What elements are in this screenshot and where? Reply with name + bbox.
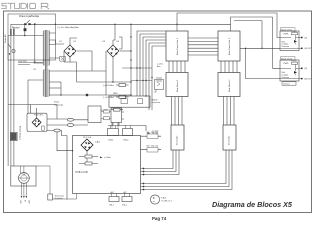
wire [31, 23, 56, 25]
wire [8, 105, 57, 120]
svg-text:T-COM 2.1.2: T-COM 2.1.2 [161, 201, 172, 203]
thermal breaker [60, 56, 65, 61]
svg-text:PD 2 D.A.: PD 2 D.A. [83, 136, 92, 139]
bridge wiring [49, 24, 230, 97]
svg-text:Pag 74: Pag 74 [152, 216, 167, 221]
AC input left column [8, 24, 15, 166]
fuse F1 [24, 28, 27, 31]
svg-text:Diagrama de Blocos X5: Diagrama de Blocos X5 [212, 200, 293, 209]
wire [7, 36, 9, 167]
caps [104, 110, 110, 113]
thermostat [48, 194, 53, 200]
logo letter U [15, 3, 20, 8]
wires in [31, 105, 37, 119]
svg-text:Fusível: Fusível [292, 31, 298, 33]
wire [49, 33, 64, 44]
wire [137, 31, 166, 96]
logo letter S [2, 3, 7, 8]
ovals [67, 118, 73, 121]
logo letter I [26, 3, 28, 8]
svg-text:P. Aux: P. Aux [161, 197, 166, 200]
svg-text:Ventilador: Ventilador [55, 197, 64, 200]
svg-text:PCB 2.0.06: PCB 2.0.06 [76, 171, 89, 174]
fonte aux box [88, 106, 146, 131]
svg-text:(B) OUT: (B) OUT [305, 78, 313, 80]
bridge1 top to bus [70, 38, 77, 45]
wire [24, 31, 26, 35]
bridge rectifier B1 [64, 45, 76, 57]
svg-text:Chave Liga/Desliga: Chave Liga/Desliga [19, 16, 40, 18]
bridge1 right [49, 51, 106, 71]
Back end 2 [280, 57, 299, 81]
bridge rectifier B2 [107, 45, 119, 57]
svg-text:Protection: Protection [282, 45, 290, 48]
logo letter D [21, 3, 27, 8]
wire [57, 132, 73, 151]
Main Driver 1 [166, 73, 188, 97]
bridge2 left [105, 51, 107, 95]
svg-text:Ponte Ret.: Ponte Ret. [34, 113, 44, 116]
wire [140, 34, 166, 96]
connector marks [8, 44, 11, 48]
svg-text:CN3-1: CN3-1 [108, 140, 113, 142]
wire [11, 23, 24, 25]
svg-text:Main Driver 2: Main Driver 2 [228, 79, 231, 92]
wire [149, 43, 166, 110]
wire [24, 25, 26, 28]
power entry box [8, 14, 56, 60]
Dissipador 2 [223, 125, 236, 150]
wire [146, 40, 166, 96]
bridge rectifier B4 [81, 139, 93, 151]
svg-text:Aux: Aux [157, 65, 160, 68]
svg-text:(+) 15V Aux: (+) 15V Aux [103, 84, 115, 87]
logo letter R [41, 3, 49, 8]
Dissipador 1 [171, 125, 184, 150]
logo letter O [30, 3, 36, 8]
Back end 1 [280, 28, 299, 51]
svg-text:D.Aux: D.Aux [95, 141, 100, 144]
svg-text:(+) Vcc Main Amplifier: (+) Vcc Main Amplifier [58, 26, 80, 29]
bus right of unit2 [240, 47, 280, 49]
wire [49, 81, 61, 83]
wire [60, 82, 62, 95]
svg-text:GND: GND [113, 93, 118, 95]
wire [34, 25, 36, 63]
svg-text:Supervisor: Supervisor [152, 102, 161, 104]
bridge rectifier B3 box [27, 105, 88, 200]
fan M1 [19, 173, 30, 184]
smps outline [28, 80, 43, 114]
node [176, 24, 177, 25]
node [24, 35, 25, 36]
fan box [11, 166, 36, 186]
VU/Clip leds row1 [141, 134, 162, 152]
Main Power Unit 2 [218, 31, 240, 61]
svg-text:CN3-2: CN3-2 [123, 140, 128, 142]
svg-text:Thermal: Thermal [283, 83, 290, 86]
bridge1 bottom [64, 51, 131, 82]
wire [143, 37, 166, 96]
Main Driver 2 [218, 73, 240, 97]
primary winding ticks [43, 31, 49, 96]
rail drop to bridge2 [113, 24, 115, 45]
svg-text:CN1-1: CN1-1 [109, 204, 114, 206]
node [112, 81, 113, 82]
svg-text:(R): (R) [305, 68, 308, 70]
top rails [176, 13, 280, 38]
transformer secondary wires to bridges [8, 33, 64, 119]
pcb internals [79, 151, 103, 165]
fuse F3 [119, 96, 126, 99]
top connectors CN [108, 126, 133, 136]
wire [49, 94, 61, 96]
svg-text:Protection: Protection [282, 76, 290, 79]
svg-text:110V 220V: 110V 220V [18, 61, 28, 63]
node [60, 94, 61, 95]
svg-text:Main Power Unit 1: Main Power Unit 1 [176, 37, 179, 55]
gnd line [61, 94, 131, 96]
wire [122, 112, 125, 119]
selector wires [18, 63, 43, 65]
svg-text:Rede AC: Rede AC [4, 34, 7, 43]
line fuses [10, 30, 11, 35]
bottom connectors [109, 194, 132, 202]
unit to driver pins [169, 61, 237, 73]
wire to pcb top conns [108, 123, 146, 132]
wire [10, 24, 12, 166]
logo letter T [8, 3, 13, 8]
fuse F2 [119, 84, 126, 87]
supervisor module box [109, 95, 150, 107]
wires [47, 119, 88, 200]
arrows at pcb edge [143, 168, 145, 170]
x131 vertical [130, 24, 132, 95]
svg-text:(+) Vaux: (+) Vaux [104, 157, 111, 159]
wire [13, 27, 15, 166]
bridge2 right to x131 [120, 50, 131, 52]
wire [49, 87, 61, 89]
svg-text:Main Driver 1: Main Driver 1 [176, 79, 179, 92]
svg-text:Dissipador: Dissipador [177, 135, 179, 145]
rail [177, 13, 280, 38]
svg-text:Fonte: Fonte [54, 101, 60, 104]
aux regulators [111, 67, 164, 111]
node [34, 23, 36, 25]
svg-text:T-COM: T-COM [152, 133, 158, 135]
vertical winding rails [43, 31, 49, 96]
bus between units [188, 17, 280, 79]
logo STUDIO R [2, 3, 49, 8]
svg-text:(R): (R) [305, 37, 308, 39]
svg-text:Módulo Disparo: Módulo Disparo [19, 126, 21, 141]
transformer T1 [43, 30, 49, 97]
wire [20, 166, 24, 173]
aux bus [122, 67, 152, 69]
triac module [155, 80, 164, 90]
switch S1 [27, 20, 30, 23]
fuse F4 [114, 108, 121, 111]
nested L bus to Main Power Unit 1 [119, 31, 166, 110]
wire [34, 62, 44, 64]
dissipador bottom loops to PCB [141, 150, 233, 190]
Main Power Unit 1 [166, 31, 188, 61]
svg-text:Main Power Unit 2: Main Power Unit 2 [228, 37, 231, 55]
bridge3 [32, 118, 41, 127]
+Vcc rail [56, 23, 231, 25]
driver to dissipador wires [172, 97, 235, 126]
P.Aux connector circle [150, 195, 159, 204]
pin ticks [119, 37, 122, 49]
svg-text:(B) OUT: (B) OUT [305, 48, 313, 50]
bridge2 bottom [112, 57, 114, 82]
svg-text:Dissipador: Dissipador [229, 135, 231, 145]
wire [152, 46, 166, 110]
wire [8, 35, 43, 37]
svg-text:Back end 2: Back end 2 [281, 58, 293, 60]
leads [22, 183, 27, 195]
svg-text:CN1-2: CN1-2 [122, 204, 127, 206]
svg-text:VU / Clip Ch2: VU / Clip Ch2 [147, 145, 158, 147]
relay left [10, 132, 17, 140]
wire [49, 45, 59, 59]
svg-text:Fusível: Fusível [292, 61, 298, 63]
rail [231, 17, 273, 31]
